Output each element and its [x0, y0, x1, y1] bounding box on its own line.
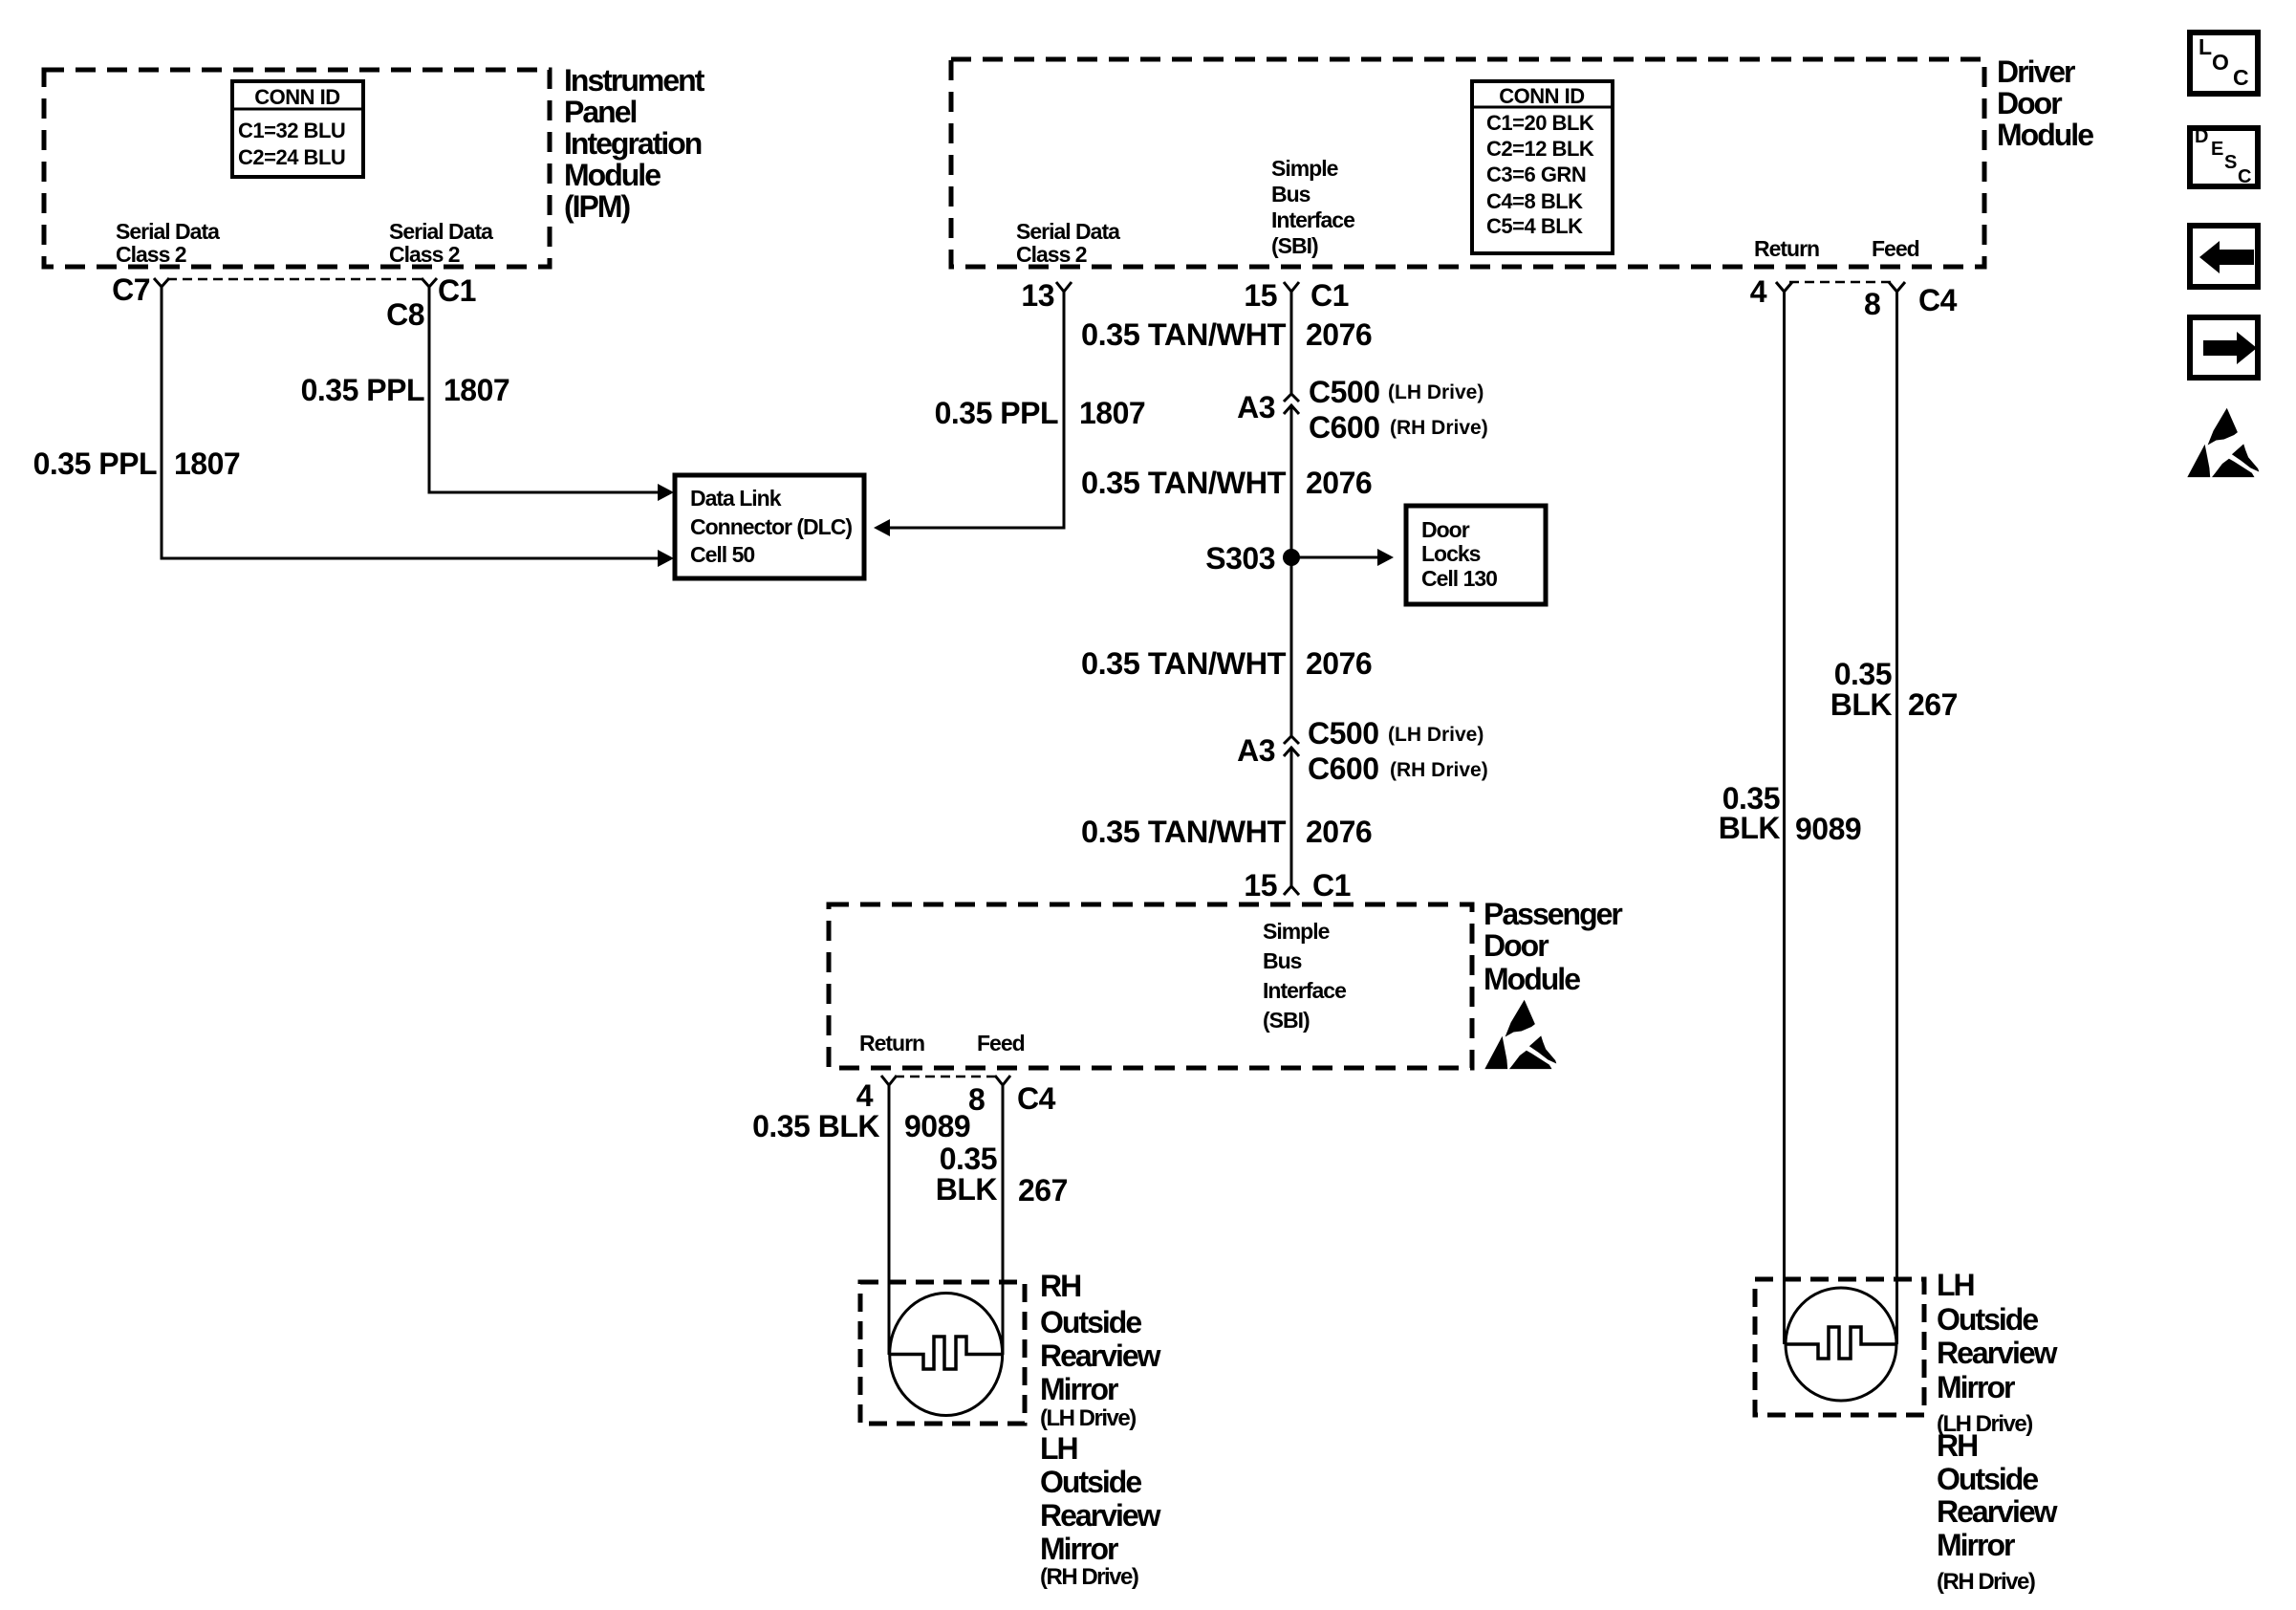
- mirror motor circle (RH): [890, 1294, 1003, 1416]
- svg-text:CONN ID: CONN ID: [254, 85, 339, 109]
- svg-text:Class 2: Class 2: [1016, 242, 1087, 267]
- svg-text:Cell 50: Cell 50: [690, 542, 754, 567]
- svg-text:C2=24 BLU: C2=24 BLU: [238, 145, 345, 169]
- svg-text:Simple: Simple: [1263, 919, 1330, 944]
- svg-text:C: C: [2238, 166, 2251, 187]
- svg-text:(RH Drive): (RH Drive): [1390, 417, 1488, 439]
- svg-text:(LH Drive): (LH Drive): [1040, 1405, 1136, 1431]
- svg-text:(RH Drive): (RH Drive): [1937, 1569, 2035, 1595]
- svg-text:C500: C500: [1308, 716, 1379, 751]
- svg-text:D: D: [2195, 126, 2208, 147]
- svg-text:Cell 130: Cell 130: [1421, 566, 1497, 591]
- svg-text:RH: RH: [1937, 1428, 1977, 1463]
- module box: Driver Door Module, dashed: [951, 59, 1984, 267]
- svg-text:Feed: Feed: [1872, 236, 1919, 261]
- pin 4 connector fork (driver): [1750, 274, 1792, 309]
- svg-text:15: 15: [1244, 278, 1277, 313]
- component box: RH Outside Rearview Mirror, dashed: [860, 1282, 1025, 1424]
- svg-text:CONN ID: CONN ID: [1499, 84, 1584, 108]
- svg-text:Interface: Interface: [1271, 207, 1354, 232]
- svg-text:Outside: Outside: [1040, 1305, 1141, 1339]
- svg-text:RH: RH: [1040, 1269, 1080, 1303]
- svg-text:2076: 2076: [1306, 317, 1372, 352]
- pin 13 connector fork: [1021, 278, 1072, 313]
- svg-text:C4: C4: [1918, 283, 1958, 317]
- element trace: [890, 1337, 1002, 1369]
- svg-text:0.35 TAN/WHT: 0.35 TAN/WHT: [1081, 466, 1287, 500]
- wire: arrow S303 to Door Locks: [1291, 549, 1394, 566]
- svg-text:0.35: 0.35: [1834, 657, 1892, 691]
- svg-text:Driver: Driver: [1997, 54, 2075, 89]
- in-line connector A3 / C500 C600 (lower): [1237, 716, 1488, 786]
- svg-text:Rearview: Rearview: [1040, 1338, 1161, 1373]
- svg-text:C4: C4: [1017, 1081, 1056, 1116]
- label: Simple Bus Interface (SBI) driver: [1271, 156, 1354, 258]
- svg-text:9089: 9089: [904, 1109, 970, 1143]
- wire: 15/C1 down to connector A3 (0.35 TAN/WHT 2076): [1081, 292, 1372, 394]
- RH mirror labels: [1040, 1269, 1161, 1590]
- CONN ID table (IPM): [232, 81, 363, 177]
- svg-text:(LH Drive): (LH Drive): [1388, 381, 1484, 403]
- svg-text:(SBI): (SBI): [1263, 1008, 1310, 1033]
- svg-text:2076: 2076: [1306, 646, 1372, 681]
- svg-text:C7: C7: [112, 272, 150, 307]
- svg-text:267: 267: [1908, 687, 1958, 722]
- svg-text:(RH Drive): (RH Drive): [1390, 759, 1488, 781]
- svg-text:Module: Module: [564, 158, 661, 192]
- wire: connector A3 to passenger module (0.35 TAN/WHT 2076): [1081, 748, 1372, 886]
- wire: driver pin 8 to LH mirror (0.35 BLK 267): [1830, 292, 1958, 1344]
- svg-text:0.35 PPL: 0.35 PPL: [33, 446, 157, 481]
- svg-text:4: 4: [1750, 274, 1767, 309]
- LH mirror labels: [1937, 1268, 2058, 1595]
- icon: DESC box: [2190, 126, 2258, 187]
- svg-text:Module: Module: [1997, 118, 2093, 152]
- svg-text:BLK: BLK: [936, 1172, 998, 1207]
- Door Locks Cell 130 box: [1406, 506, 1546, 604]
- icon: left arrow box: [2190, 226, 2258, 287]
- icon: right arrow box: [2190, 317, 2258, 378]
- svg-text:0.35 PPL: 0.35 PPL: [301, 373, 424, 407]
- in-line connector A3 / C500 C600 (upper): [1237, 375, 1488, 445]
- wire: passenger pin 4 to RH mirror (0.35 BLK 9089): [752, 1085, 970, 1355]
- svg-text:Rearview: Rearview: [1040, 1498, 1161, 1533]
- label: Serial Data Class 2 (left): [116, 219, 220, 267]
- svg-text:0.35 TAN/WHT: 0.35 TAN/WHT: [1081, 815, 1287, 849]
- svg-text:Module: Module: [1484, 962, 1580, 996]
- svg-text:Panel: Panel: [564, 95, 636, 129]
- component box: LH Outside Rearview Mirror, dashed: [1755, 1279, 1924, 1415]
- CONN ID table (Driver Door Module): [1472, 81, 1613, 253]
- pin 15/C1 connector fork: [1244, 278, 1349, 313]
- svg-text:O: O: [2212, 50, 2229, 75]
- svg-text:C: C: [2233, 65, 2249, 90]
- svg-text:Outside: Outside: [1040, 1465, 1141, 1499]
- svg-text:0.35 BLK: 0.35 BLK: [752, 1109, 879, 1143]
- svg-text:Connector (DLC): Connector (DLC): [690, 514, 852, 539]
- svg-text:Return: Return: [859, 1031, 924, 1055]
- wire: pin 13 to DLC (0.35 PPL 1807): [874, 292, 1145, 536]
- svg-text:C1: C1: [438, 273, 476, 308]
- connector face dashed line 4-8 (passenger): [895, 1076, 997, 1077]
- module box: Instrument Panel Integration Module (IPM), dashed: [44, 70, 550, 267]
- svg-text:C1=32 BLU: C1=32 BLU: [238, 119, 345, 142]
- svg-text:S303: S303: [1205, 541, 1275, 576]
- svg-text:Serial Data: Serial Data: [389, 219, 493, 244]
- svg-text:4: 4: [856, 1078, 874, 1113]
- svg-text:Serial Data: Serial Data: [116, 219, 220, 244]
- svg-text:E: E: [2211, 139, 2223, 160]
- pin 15/C1 fork (passenger top, inverted): [1244, 868, 1351, 903]
- pin C8/C1 connector fork: [386, 273, 476, 332]
- svg-text:267: 267: [1018, 1173, 1068, 1207]
- label: Simple Bus Interface (SBI) passenger: [1263, 919, 1346, 1033]
- svg-text:Door: Door: [1997, 86, 2062, 120]
- svg-text:C600: C600: [1309, 410, 1380, 445]
- svg-text:Outside: Outside: [1937, 1302, 2038, 1337]
- pin 4 fork (passenger): [856, 1076, 897, 1113]
- svg-text:Bus: Bus: [1263, 948, 1302, 973]
- svg-text:(SBI): (SBI): [1271, 233, 1318, 258]
- wire: driver pin 4 to LH mirror (0.35 BLK 9089): [1719, 292, 1861, 1344]
- svg-text:Return: Return: [1754, 236, 1819, 261]
- svg-text:BLK: BLK: [1719, 811, 1781, 845]
- svg-text:A3: A3: [1237, 733, 1275, 768]
- svg-text:2076: 2076: [1306, 815, 1372, 849]
- svg-text:1807: 1807: [174, 446, 240, 481]
- Driver Door Module title: [1997, 54, 2093, 152]
- mirror motor circle (LH): [1786, 1288, 1896, 1401]
- svg-text:Mirror: Mirror: [1937, 1370, 2015, 1404]
- svg-text:S: S: [2224, 152, 2237, 173]
- svg-text:C1=20 BLK: C1=20 BLK: [1486, 111, 1594, 135]
- svg-text:(RH Drive): (RH Drive): [1040, 1564, 1138, 1590]
- svg-text:Locks: Locks: [1421, 541, 1481, 566]
- svg-text:C2=12 BLK: C2=12 BLK: [1486, 137, 1594, 161]
- svg-text:Door: Door: [1484, 928, 1549, 963]
- svg-text:Class 2: Class 2: [389, 242, 460, 267]
- svg-text:C1: C1: [1312, 868, 1351, 903]
- svg-text:Data Link: Data Link: [690, 486, 782, 511]
- svg-text:Integration: Integration: [564, 126, 702, 161]
- svg-text:(LH Drive): (LH Drive): [1388, 724, 1484, 746]
- svg-text:Door: Door: [1421, 517, 1470, 542]
- svg-text:9089: 9089: [1795, 812, 1861, 846]
- svg-text:0.35 TAN/WHT: 0.35 TAN/WHT: [1081, 317, 1287, 352]
- svg-text:0.35 TAN/WHT: 0.35 TAN/WHT: [1081, 646, 1287, 681]
- svg-text:Instrument: Instrument: [564, 63, 705, 98]
- svg-text:C3=6 GRN: C3=6 GRN: [1486, 163, 1586, 186]
- svg-text:C8: C8: [386, 297, 424, 332]
- svg-text:Rearview: Rearview: [1937, 1336, 2058, 1370]
- pin 8/C4 fork (passenger): [968, 1076, 1056, 1117]
- connector face dashed line 4-8 (driver): [1789, 281, 1891, 283]
- svg-text:L: L: [2199, 34, 2212, 59]
- ESD symbol (passenger): [1484, 1000, 1556, 1069]
- pin 8/C4 connector fork (driver): [1864, 282, 1958, 321]
- connector face dashed line C7-C8: [167, 278, 423, 280]
- icon: ESD symbol (sidebar): [2187, 408, 2259, 477]
- svg-text:Rearview: Rearview: [1937, 1494, 2058, 1529]
- IPM title text: [564, 63, 705, 224]
- wire: passenger pin 8 to RH mirror (0.35 BLK 267): [936, 1085, 1068, 1355]
- svg-text:C1: C1: [1310, 278, 1349, 313]
- svg-text:Simple: Simple: [1271, 156, 1338, 181]
- svg-text:Mirror: Mirror: [1040, 1372, 1118, 1406]
- svg-text:LH: LH: [1040, 1431, 1077, 1466]
- svg-text:8: 8: [1864, 287, 1880, 321]
- svg-text:A3: A3: [1237, 390, 1275, 424]
- module box: Passenger Door Module, dashed: [829, 904, 1472, 1068]
- label: Serial Data Class 2 (driver): [1016, 219, 1120, 267]
- svg-text:BLK: BLK: [1830, 687, 1893, 722]
- svg-text:Mirror: Mirror: [1040, 1532, 1118, 1566]
- wire: C7 to DLC (0.35 PPL 1807): [33, 287, 674, 567]
- pin C7 connector fork: [112, 272, 169, 307]
- Data Link Connector (DLC) Cell 50 box: [675, 475, 864, 578]
- label: Serial Data Class 2 (right): [389, 219, 493, 267]
- svg-text:1807: 1807: [444, 373, 509, 407]
- wire: C1 to DLC (0.35 PPL 1807): [301, 287, 674, 501]
- Passenger Door Module title: [1484, 897, 1622, 996]
- svg-text:Class 2: Class 2: [116, 242, 186, 267]
- svg-text:C5=4 BLK: C5=4 BLK: [1486, 214, 1583, 238]
- svg-text:Passenger: Passenger: [1484, 897, 1622, 931]
- svg-text:Outside: Outside: [1937, 1462, 2038, 1496]
- svg-text:Feed: Feed: [977, 1031, 1025, 1055]
- wire: connector A3 to S303 (0.35 TAN/WHT 2076): [1081, 405, 1372, 736]
- svg-text:0.35: 0.35: [940, 1142, 997, 1176]
- svg-text:2076: 2076: [1306, 466, 1372, 500]
- element trace: [1786, 1327, 1896, 1359]
- svg-text:C600: C600: [1308, 751, 1379, 786]
- svg-text:Serial Data: Serial Data: [1016, 219, 1120, 244]
- svg-text:Interface: Interface: [1263, 978, 1346, 1003]
- svg-text:Bus: Bus: [1271, 182, 1310, 207]
- splice S303: [1205, 541, 1300, 576]
- label 0.35 TAN/WHT 2076 (third): [1081, 646, 1372, 681]
- svg-text:15: 15: [1244, 868, 1277, 903]
- svg-text:(IPM): (IPM): [564, 189, 631, 224]
- svg-text:1807: 1807: [1079, 396, 1145, 430]
- icon: LOC box: [2190, 33, 2258, 94]
- svg-text:Mirror: Mirror: [1937, 1528, 2015, 1562]
- svg-text:0.35 PPL: 0.35 PPL: [935, 396, 1058, 430]
- svg-text:13: 13: [1021, 278, 1054, 313]
- svg-text:LH: LH: [1937, 1268, 1974, 1302]
- svg-text:8: 8: [968, 1082, 985, 1117]
- svg-text:C4=8 BLK: C4=8 BLK: [1486, 189, 1583, 213]
- svg-text:C500: C500: [1309, 375, 1380, 409]
